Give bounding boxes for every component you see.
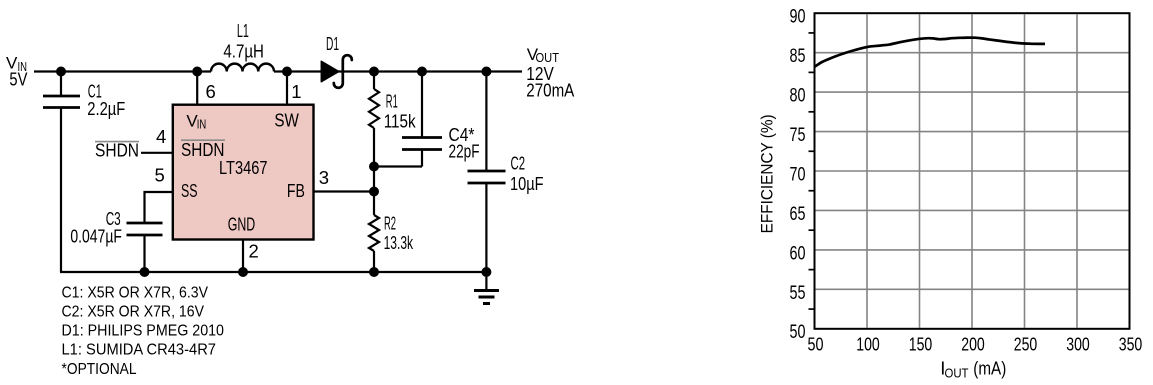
svg-text:90: 90 [790,7,806,28]
svg-text:R1: R1 [386,91,398,112]
svg-text:100: 100 [856,333,880,354]
svg-text:SS: SS [181,180,198,201]
svg-text:75: 75 [790,125,806,146]
svg-text:L1: L1 [237,20,249,41]
svg-text:C2: C2 [511,153,526,174]
svg-text:EFFICIENCY (%): EFFICIENCY (%) [758,114,777,233]
svg-text:IN: IN [197,117,207,132]
svg-text:*OPTIONAL: *OPTIONAL [62,361,137,378]
svg-text:2: 2 [249,240,259,261]
svg-text:6: 6 [206,81,216,102]
svg-text:10µF: 10µF [510,173,544,194]
svg-text:OUT: OUT [945,366,969,381]
svg-text:2.2µF: 2.2µF [87,98,125,119]
svg-text:80: 80 [790,86,806,107]
svg-text:85: 85 [790,46,806,67]
svg-text:SHDN: SHDN [181,139,225,160]
svg-text:50: 50 [808,333,824,354]
svg-text:C1: X5R OR X7R, 6.3V: C1: X5R OR X7R, 6.3V [62,285,209,302]
svg-text:R2: R2 [384,213,396,234]
svg-text:(mA): (mA) [973,358,1006,379]
svg-text:50: 50 [790,322,806,343]
svg-text:4.7µH: 4.7µH [223,40,264,61]
svg-text:115k: 115k [384,111,417,132]
svg-text:60: 60 [790,243,806,264]
svg-text:65: 65 [790,204,806,225]
svg-text:5V: 5V [9,68,28,89]
svg-text:350: 350 [1119,333,1143,354]
svg-text:300: 300 [1066,333,1090,354]
svg-text:5: 5 [155,165,165,186]
svg-text:3: 3 [319,167,329,188]
svg-text:FB: FB [287,180,305,201]
svg-text:22pF: 22pF [449,141,480,162]
svg-text:C2: X5R OR X7R, 16V: C2: X5R OR X7R, 16V [62,304,205,321]
svg-text:D1: PHILIPS PMEG 2010: D1: PHILIPS PMEG 2010 [62,323,225,340]
svg-text:D1: D1 [326,33,339,54]
svg-text:SW: SW [274,110,299,131]
svg-text:0.047µF: 0.047µF [70,226,122,247]
svg-text:SHDN: SHDN [95,140,139,161]
svg-text:1: 1 [291,81,301,102]
svg-text:200: 200 [961,333,985,354]
svg-text:GND: GND [228,214,256,235]
svg-text:13.3k: 13.3k [384,232,414,253]
svg-text:4: 4 [156,126,166,147]
svg-text:70: 70 [790,164,806,185]
svg-text:55: 55 [790,283,806,304]
svg-text:150: 150 [909,333,933,354]
svg-text:L1: SUMIDA CR43-4R7: L1: SUMIDA CR43-4R7 [62,342,217,359]
svg-text:250: 250 [1014,333,1038,354]
svg-text:LT3467: LT3467 [219,157,268,178]
svg-text:270mA: 270mA [526,79,575,100]
